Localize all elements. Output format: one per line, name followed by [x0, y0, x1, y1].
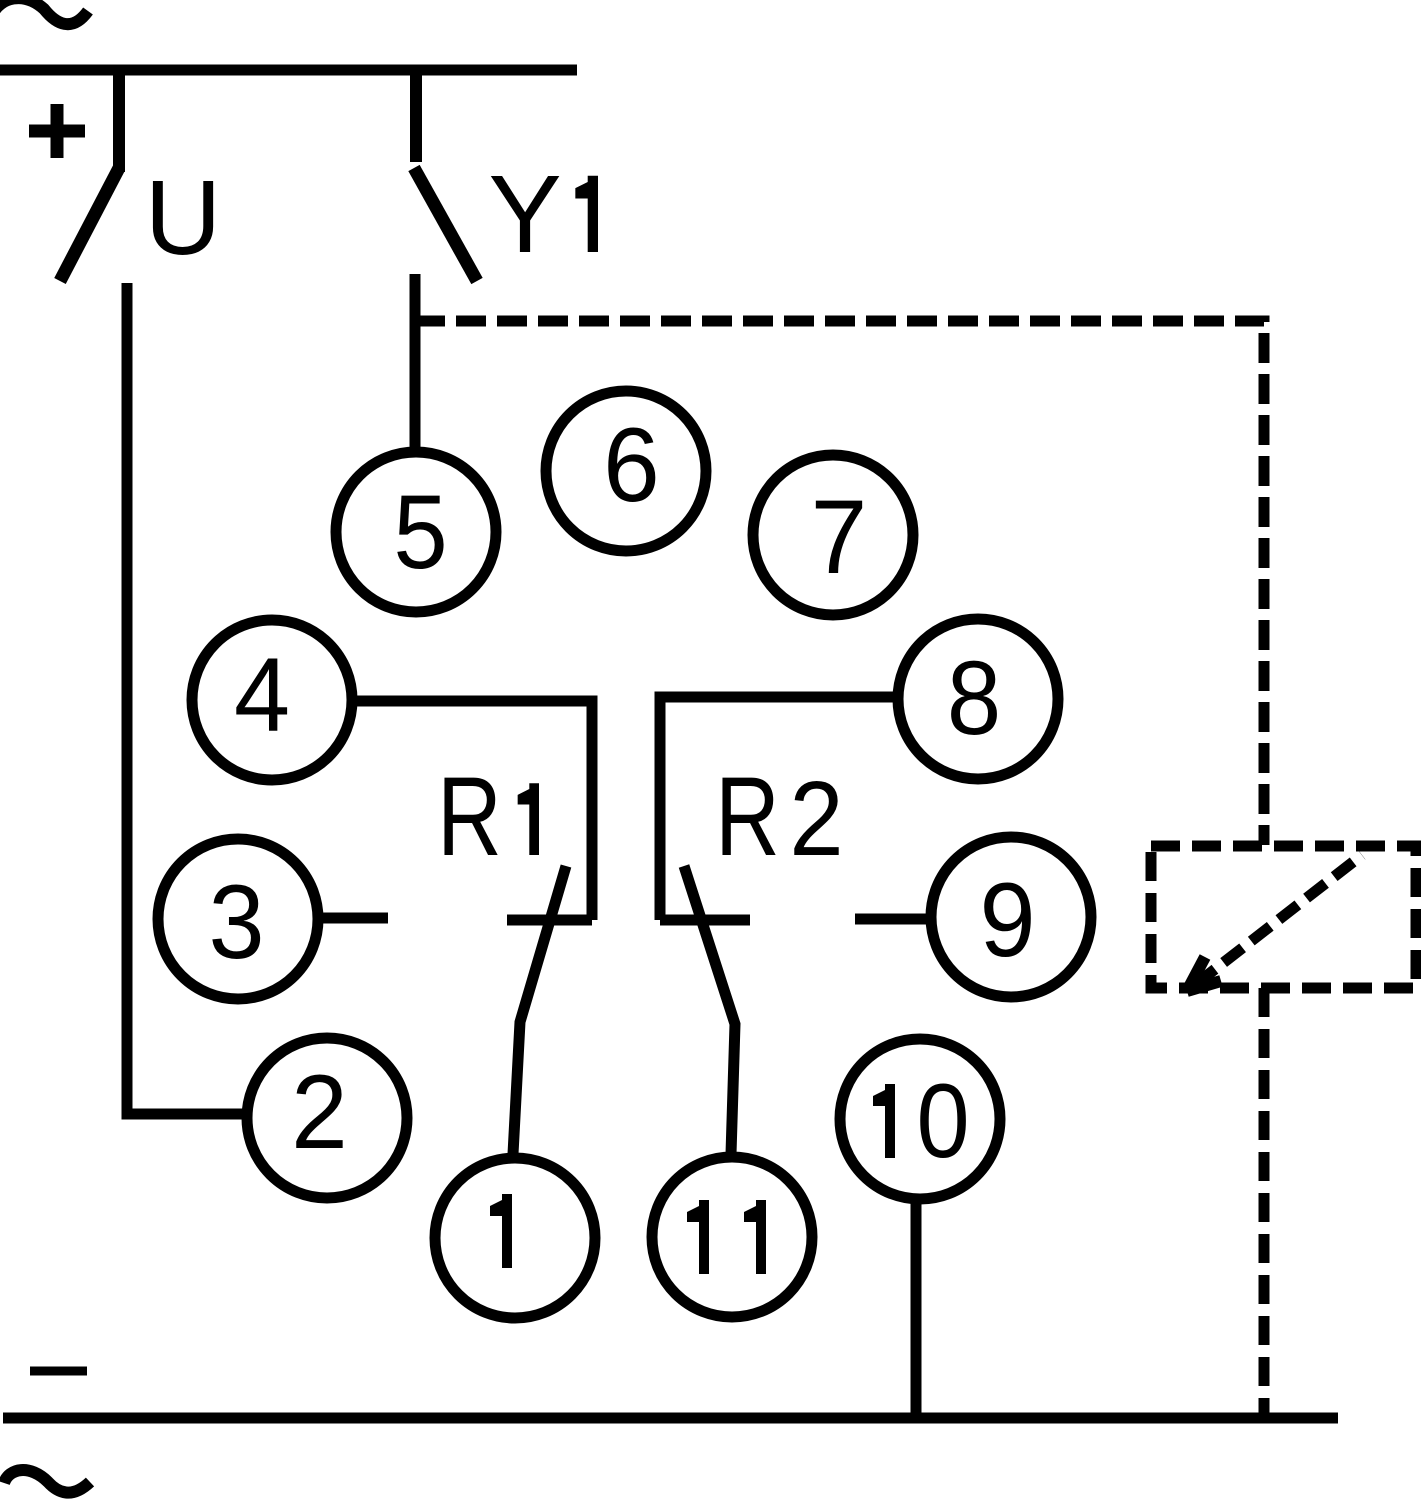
pin 1 circle — [435, 1158, 595, 1318]
pin 7 circle — [753, 455, 913, 615]
svg-text:9: 9 — [979, 861, 1035, 978]
pin 3 stub — [322, 913, 388, 924]
pin 9 stub — [855, 914, 928, 925]
wire: pin 8 to contact R2 — [660, 697, 895, 920]
contact R1 blade to pin 1 — [513, 866, 566, 1154]
terminal Y1 switch blade — [414, 168, 477, 281]
pin 2 circle — [247, 1038, 407, 1198]
pin 11 number : first 1 — [687, 1200, 709, 1274]
actuator arrowhead — [1187, 957, 1205, 991]
terminal U switch blade — [60, 168, 119, 281]
minus polarity symbol — [30, 1367, 87, 1376]
pin 8 circle — [898, 619, 1058, 779]
svg-text:0: 0 — [916, 1063, 969, 1180]
wire: U lower lead down to pin 2 — [127, 283, 244, 1114]
wire: pin 10 to bottom rail — [911, 1199, 922, 1418]
pin 4 circle — [192, 620, 352, 780]
wire: top supply line — [0, 65, 577, 76]
dashed line from box to bottom rail — [1259, 988, 1270, 1418]
svg-text:R: R — [437, 755, 502, 880]
pin 6 circle — [546, 391, 706, 551]
terminal U upper lead — [113, 70, 125, 172]
AC symbol top (~) — [0, 0, 88, 24]
terminal Y1 upper lead — [410, 70, 422, 162]
svg-text:Y: Y — [488, 153, 561, 276]
svg-text:U: U — [145, 159, 222, 277]
label R1 : 1 glyph — [518, 783, 539, 855]
wire: bottom supply rail — [3, 1413, 1338, 1424]
AC symbol bottom (~) — [4, 1470, 90, 1493]
contact R2 fixed tick — [660, 915, 750, 926]
pin 9 circle — [931, 837, 1091, 997]
pin 11 number : second 1 — [744, 1200, 766, 1274]
pin 10 number : 1 — [873, 1084, 895, 1158]
svg-text:7: 7 — [811, 478, 868, 596]
pin 1 number — [490, 1194, 512, 1268]
svg-text:3: 3 — [208, 863, 264, 980]
dashed actuator blade in box — [1196, 855, 1362, 984]
dashed control line from Y1 to relay coil box — [415, 321, 1264, 845]
svg-text:R: R — [715, 755, 780, 880]
wire: Y1 lower lead down to pin 5 — [410, 274, 421, 453]
svg-text:6: 6 — [603, 406, 660, 524]
wire: pin 4 to contact R1 — [352, 701, 592, 920]
svg-text:2: 2 — [789, 759, 843, 878]
label Y1 : 1 glyph — [575, 176, 598, 252]
svg-text:8: 8 — [947, 640, 1001, 757]
plus polarity symbol — [29, 104, 85, 158]
pin 11 circle — [652, 1157, 812, 1317]
contact R1 fixed tick — [507, 915, 592, 926]
svg-text:5: 5 — [393, 474, 447, 591]
relay element dashed box — [1151, 846, 1416, 988]
svg-text:4: 4 — [234, 636, 290, 753]
pin 3 circle — [158, 839, 318, 999]
contact R2 blade to pin 11 — [684, 866, 735, 1154]
pin 10 circle — [840, 1039, 1000, 1199]
svg-text:2: 2 — [291, 1053, 348, 1171]
pin 5 circle — [336, 452, 496, 612]
